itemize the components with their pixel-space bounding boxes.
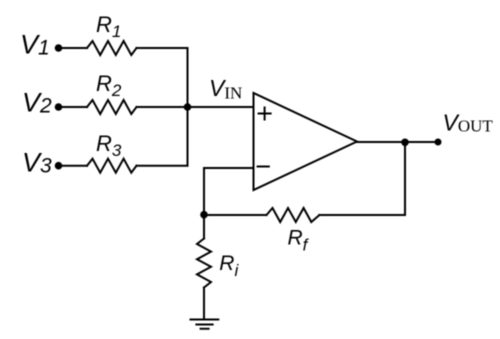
wire R2 to op-amp noninverting input xyxy=(137,106,254,108)
wire V2 to R2 xyxy=(61,106,87,108)
ground xyxy=(191,320,219,329)
op-amp U1 xyxy=(254,93,358,190)
svg-text:R2: R2 xyxy=(96,71,122,100)
terminal dot VOUT xyxy=(435,139,442,146)
resistor Ri xyxy=(197,239,211,288)
wire inverting input to feedback node xyxy=(204,168,254,215)
svg-text:R1: R1 xyxy=(96,12,121,41)
resistor R2 xyxy=(87,100,137,114)
junction feedback node xyxy=(200,211,208,219)
junction output node xyxy=(401,139,409,147)
terminal dot V3 xyxy=(55,162,63,170)
wire Rf to output column xyxy=(319,142,405,215)
op-amp plus pin mark xyxy=(259,108,271,120)
svg-text:VOUT: VOUT xyxy=(443,110,494,136)
terminal dot V2 xyxy=(55,103,63,111)
wire feedback node to Rf xyxy=(204,214,267,216)
wire R1 to summing bus xyxy=(137,48,188,107)
op-amp minus pin mark xyxy=(258,166,269,168)
resistor Rf xyxy=(267,208,320,222)
wire op-amp output to VOUT terminal xyxy=(357,141,438,143)
terminal dot V1 xyxy=(55,44,63,52)
wire Ri to ground xyxy=(203,288,205,320)
wire V1 to R1 xyxy=(61,47,87,49)
svg-text:V2: V2 xyxy=(22,88,52,118)
svg-text:V3: V3 xyxy=(22,148,52,178)
svg-text:V1: V1 xyxy=(20,30,50,60)
wire R3 to summing bus xyxy=(137,107,188,166)
svg-text:Rf: Rf xyxy=(288,226,310,254)
wire V3 to R3 xyxy=(61,165,87,167)
resistor R1 xyxy=(87,41,137,55)
svg-text:VIN: VIN xyxy=(209,75,242,102)
svg-text:Ri: Ri xyxy=(219,252,239,280)
resistor R3 xyxy=(87,159,137,173)
junction VIN node xyxy=(184,103,192,111)
svg-text:R3: R3 xyxy=(96,131,122,160)
wire feedback node to Ri xyxy=(203,215,205,239)
